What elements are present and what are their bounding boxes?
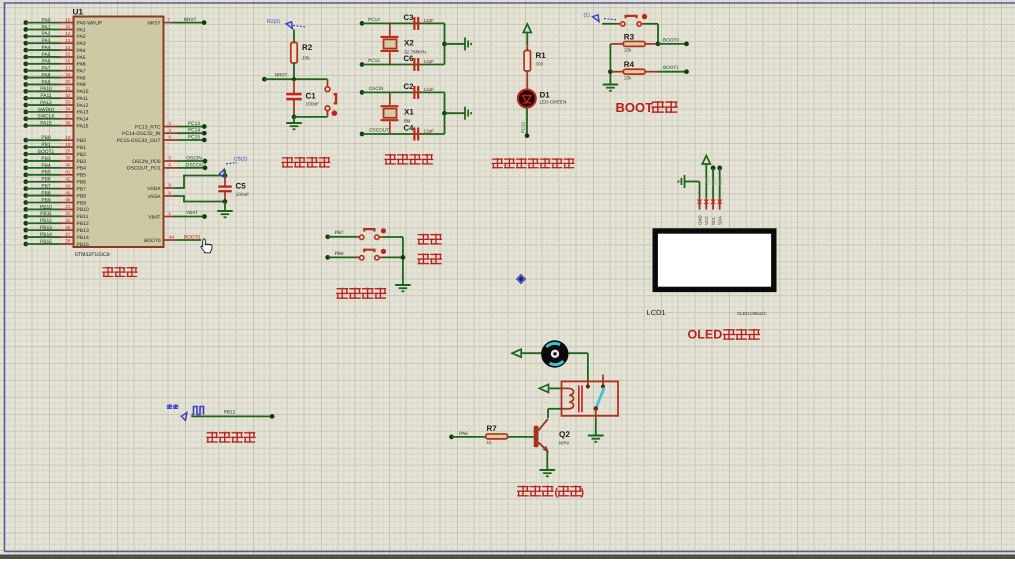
- wire D1 to PC13: [526, 108, 528, 136]
- pin PA10 (pin 31): [23, 89, 28, 94]
- pin NRST (7): [164, 22, 173, 24]
- svg-text:VCC: VCC: [704, 216, 709, 225]
- wire OLED GND: [685, 181, 700, 183]
- LCD1 pin 1: [699, 198, 701, 210]
- bottom bar: [0, 555, 1015, 560]
- wire to ground: [445, 112, 465, 114]
- svg-text:(: (: [555, 486, 559, 498]
- pin PB13 (pin 26): [23, 228, 28, 233]
- svg-text:30: 30: [65, 79, 71, 84]
- pin PB4 (pin 40): [23, 166, 28, 171]
- wire SDA stub: [717, 166, 722, 171]
- svg-text:PA4: PA4: [77, 48, 86, 54]
- svg-text:R4: R4: [624, 60, 635, 69]
- svg-text:40: 40: [65, 163, 71, 168]
- svg-text:PA0: PA0: [42, 18, 51, 24]
- LCD1 pin 3: [712, 198, 714, 210]
- ground relay: [588, 435, 604, 437]
- node PB7: [325, 234, 330, 239]
- ground boot: [603, 84, 619, 86]
- wire C2 row: [362, 91, 445, 93]
- pin PB2 (pin 20): [23, 152, 28, 157]
- svg-text:8M: 8M: [404, 119, 411, 124]
- svg-text:100nF: 100nF: [236, 192, 250, 198]
- power arrow motor: [512, 349, 521, 357]
- svg-text:PB7: PB7: [41, 184, 51, 190]
- wire right rail: [444, 23, 446, 64]
- pin BOOT0 (44): [164, 239, 178, 241]
- svg-text:VBAT: VBAT: [186, 210, 198, 215]
- node left rail R4: [608, 69, 613, 74]
- svg-text:PA3: PA3: [77, 41, 86, 47]
- svg-text:SDA: SDA: [718, 216, 723, 225]
- svg-text:U1: U1: [73, 8, 84, 17]
- wire R7 to Q2: [508, 436, 534, 438]
- capacitor C3: [413, 17, 415, 30]
- svg-text:PA12: PA12: [77, 103, 89, 109]
- capacitor C4: [413, 128, 415, 141]
- svg-text:PA5: PA5: [77, 55, 86, 61]
- wire C5 stub: [224, 170, 226, 176]
- pin PC13_RTC (2): [164, 126, 178, 128]
- svg-text:BOOT1: BOOT1: [38, 149, 55, 155]
- svg-text:PC13: PC13: [521, 121, 526, 133]
- svg-text:VDDA: VDDA: [147, 186, 161, 192]
- wire to ground: [445, 43, 465, 45]
- pin PC15-OSC32_OUT (4): [164, 139, 178, 141]
- pin PA14 (pin 37): [23, 116, 28, 121]
- svg-text:PB15: PB15: [40, 239, 52, 245]
- node NRST left: [262, 77, 267, 82]
- pin VSSA (8): [164, 195, 175, 197]
- capacitor C2: [413, 86, 415, 99]
- svg-text:BOOT0: BOOT0: [184, 234, 201, 240]
- svg-text:12pF: 12pF: [424, 18, 435, 23]
- node C2 left: [360, 90, 365, 95]
- svg-text:SWDIO: SWDIO: [38, 107, 55, 113]
- svg-text:VDD: VDD: [705, 177, 710, 186]
- svg-text:PA15: PA15: [77, 123, 89, 129]
- svg-text:21: 21: [65, 204, 71, 209]
- button RESET top lead: [327, 79, 329, 86]
- node PC13 end: [525, 133, 530, 138]
- svg-text:12pF: 12pF: [424, 129, 435, 134]
- svg-text:R3: R3: [624, 32, 635, 41]
- node rail mid: [442, 111, 447, 116]
- pin PA13 (pin 34): [23, 110, 28, 115]
- pin PC14-OSC32_IN (3): [164, 132, 178, 134]
- wire boot button right: [641, 23, 644, 25]
- svg-text:PA6: PA6: [459, 431, 468, 436]
- svg-text:PA7: PA7: [77, 68, 86, 74]
- caption 继电器(水泵): [518, 486, 529, 496]
- svg-text:PA1: PA1: [77, 27, 86, 33]
- svg-text:R2(2): R2(2): [267, 19, 280, 25]
- svg-text:PC13: PC13: [188, 121, 201, 127]
- svg-text:PA3: PA3: [42, 38, 51, 44]
- svg-text:PB10: PB10: [40, 204, 52, 210]
- caption 清零: [418, 254, 429, 264]
- button BOOT: [621, 22, 625, 26]
- ground OLED: [684, 175, 686, 188]
- svg-text:PB13: PB13: [40, 225, 52, 231]
- svg-text:PC14: PC14: [368, 17, 380, 22]
- svg-text:300: 300: [536, 62, 544, 67]
- svg-text:C4: C4: [404, 124, 415, 133]
- svg-text:PA6: PA6: [42, 59, 51, 65]
- svg-text:PB0: PB0: [41, 135, 51, 141]
- pin PA11 (pin 32): [23, 96, 28, 101]
- svg-text:15: 15: [65, 52, 71, 57]
- node C5 top: [223, 173, 228, 178]
- svg-text:19: 19: [65, 142, 71, 147]
- svg-text:10k: 10k: [624, 75, 632, 81]
- caption 晶振电路: [385, 155, 396, 164]
- resistor R7: [486, 434, 508, 439]
- svg-text:OSCOUT_PD1: OSCOUT_PD1: [127, 166, 161, 172]
- wire right rail: [444, 92, 446, 134]
- resistor R2: [291, 43, 297, 64]
- svg-text:C5(2): C5(2): [234, 157, 247, 163]
- svg-text:OLED128642C: OLED128642C: [737, 311, 767, 316]
- svg-text:PB11: PB11: [77, 214, 89, 220]
- pin PA8 (pin 29): [23, 75, 28, 80]
- svg-text:PB6: PB6: [77, 180, 87, 186]
- node C4 left: [360, 132, 365, 137]
- pin PA3 (pin 13): [23, 41, 28, 46]
- svg-text:OSCOUT: OSCOUT: [369, 127, 389, 132]
- node R3 right: [656, 42, 661, 47]
- svg-text:NRST: NRST: [275, 73, 288, 78]
- pin OSCOUT_PD1 (6): [164, 167, 178, 169]
- ground keys: [395, 284, 411, 286]
- svg-text:44: 44: [169, 235, 174, 240]
- power arrow coil: [540, 384, 549, 392]
- svg-text:PB12: PB12: [77, 221, 89, 227]
- wire motor left: [521, 352, 541, 354]
- svg-text:20: 20: [65, 149, 71, 154]
- svg-text:R1: R1: [536, 51, 547, 60]
- display LCD1: [655, 231, 774, 289]
- svg-text:PC15: PC15: [188, 134, 201, 140]
- svg-text:PA13: PA13: [77, 110, 89, 116]
- svg-text:27: 27: [65, 232, 71, 237]
- svg-text:NRST: NRST: [184, 17, 197, 22]
- svg-text:PA11: PA11: [77, 96, 89, 102]
- svg-text:PB8: PB8: [77, 193, 87, 199]
- svg-text:6: 6: [168, 163, 171, 168]
- svg-text:PB8: PB8: [41, 190, 51, 196]
- pin PB12 (pin 25): [23, 221, 28, 226]
- svg-text:D1: D1: [540, 91, 551, 100]
- svg-text:39: 39: [65, 156, 71, 161]
- LCD1 pin 2: [705, 198, 707, 210]
- svg-text:PB3: PB3: [41, 156, 51, 162]
- pin PB10 (pin 21): [23, 207, 28, 212]
- svg-text:10: 10: [65, 17, 71, 22]
- svg-text:BOOT0: BOOT0: [663, 37, 679, 42]
- pin PB9 (pin 46): [23, 200, 28, 205]
- svg-text:GND: GND: [697, 215, 702, 225]
- svg-text:PB9: PB9: [77, 200, 87, 206]
- wire KEY2 right: [379, 256, 382, 258]
- ground rotated: [464, 107, 466, 120]
- svg-text:STM32F103C8: STM32F103C8: [75, 252, 110, 258]
- svg-text:PB7: PB7: [77, 186, 87, 192]
- wire PB7: [328, 236, 357, 238]
- wire keys rail: [402, 237, 404, 285]
- button KEY1: [360, 235, 364, 239]
- svg-text:2: 2: [168, 121, 171, 126]
- svg-text:PB7: PB7: [335, 230, 344, 235]
- svg-text:PB11: PB11: [40, 211, 52, 217]
- svg-text:SCL: SCL: [711, 216, 716, 225]
- svg-text:PB8: PB8: [335, 251, 344, 256]
- origin marker: [517, 275, 526, 284]
- svg-text:C5: C5: [236, 182, 247, 191]
- svg-text:32: 32: [65, 93, 71, 98]
- svg-text:28: 28: [65, 239, 71, 244]
- pin PB15 (pin 28): [23, 242, 28, 247]
- svg-text:PB12: PB12: [224, 410, 236, 415]
- svg-text:PB6: PB6: [41, 177, 51, 183]
- capacitor C5: [218, 185, 232, 187]
- LED D1: [518, 90, 536, 108]
- svg-text:PA10: PA10: [77, 89, 89, 95]
- svg-text:OSCIN: OSCIN: [186, 155, 202, 161]
- svg-text:17: 17: [65, 65, 71, 70]
- wire VDDA to C5: [174, 187, 184, 189]
- svg-text:32.768KHz: 32.768KHz: [404, 49, 427, 54]
- svg-text:PB15: PB15: [77, 242, 89, 248]
- svg-text:10k: 10k: [302, 56, 310, 62]
- wire NRST rail: [264, 78, 327, 80]
- svg-text:4: 4: [168, 135, 171, 140]
- node rail mid: [442, 42, 447, 47]
- caption 独立按键: [337, 288, 348, 298]
- svg-text:PB1: PB1: [41, 142, 51, 148]
- svg-text:46: 46: [65, 197, 71, 202]
- svg-text:45: 45: [65, 190, 71, 195]
- svg-text:PA5: PA5: [42, 52, 51, 58]
- svg-text:38: 38: [65, 120, 71, 125]
- pin PB5 (pin 41): [23, 172, 28, 177]
- svg-text:PB4: PB4: [41, 163, 51, 169]
- capacitor C6: [413, 58, 415, 71]
- svg-text:PB13: PB13: [77, 228, 89, 234]
- pin PA9 (pin 30): [23, 82, 28, 87]
- svg-text:PB12: PB12: [40, 218, 52, 224]
- wire bottom rail: [294, 116, 328, 118]
- wire VSSA to C5: [174, 195, 184, 197]
- pin PB3 (pin 39): [23, 159, 28, 164]
- node C3 left: [360, 21, 365, 26]
- wire C3 row: [362, 22, 445, 24]
- op-chip U1 body: [74, 17, 164, 248]
- svg-text:PB9: PB9: [41, 197, 51, 203]
- pin PA15 (pin 38): [23, 123, 28, 128]
- svg-text:1k: 1k: [487, 440, 493, 445]
- wire BOOT0: [658, 43, 687, 45]
- svg-text:PA2: PA2: [77, 34, 86, 40]
- svg-text:SWCLK: SWCLK: [37, 114, 55, 120]
- pin PA1 (pin 11): [23, 27, 28, 32]
- svg-text:18: 18: [65, 135, 71, 140]
- svg-text:29: 29: [65, 72, 71, 77]
- svg-text:34: 34: [65, 107, 71, 112]
- resistor R3: [623, 41, 645, 46]
- svg-text:12pF: 12pF: [424, 59, 435, 64]
- node PA6: [449, 435, 454, 440]
- svg-text:BOOT0: BOOT0: [144, 238, 161, 244]
- resistor R1: [524, 51, 530, 72]
- ground Q2: [540, 469, 556, 471]
- relay switch blade: [596, 388, 605, 409]
- relay RL1 body: [562, 381, 619, 415]
- svg-text:11: 11: [66, 24, 71, 29]
- svg-text:VSSA: VSSA: [148, 194, 162, 200]
- ground reset: [286, 122, 302, 124]
- svg-text:PB1: PB1: [77, 145, 87, 151]
- svg-text:R7: R7: [487, 424, 498, 433]
- motor: [541, 340, 568, 367]
- svg-text:PC14: PC14: [188, 128, 201, 134]
- wire coil bottom: [548, 408, 562, 410]
- wire boot button left: [602, 23, 618, 25]
- svg-text:(1): (1): [584, 12, 591, 18]
- wire left rail: [609, 44, 611, 84]
- svg-text:PB0: PB0: [77, 138, 87, 144]
- node PB12 end: [270, 414, 275, 419]
- svg-text:42: 42: [65, 176, 71, 181]
- wire coil left: [549, 387, 562, 389]
- svg-text:PB3: PB3: [77, 159, 87, 165]
- node C6 left: [360, 62, 365, 67]
- svg-text:5: 5: [168, 156, 171, 161]
- svg-text:PA9: PA9: [77, 82, 86, 88]
- node PB8: [325, 255, 330, 260]
- pin PB11 (pin 22): [23, 214, 28, 219]
- wire KEY1 right: [379, 236, 382, 238]
- svg-text:PB10: PB10: [77, 207, 89, 213]
- svg-text:33: 33: [65, 100, 71, 105]
- crystal X2: [381, 36, 399, 38]
- transistor Q2: [534, 426, 539, 447]
- svg-text:C1: C1: [306, 92, 317, 101]
- caption 程序运行指示灯: [492, 159, 502, 168]
- svg-text:SDA: SDA: [718, 177, 723, 186]
- svg-text:13: 13: [65, 38, 71, 43]
- svg-text:C3: C3: [404, 13, 415, 22]
- ground rotated: [464, 37, 466, 50]
- pin PB14 (pin 27): [23, 235, 28, 240]
- wire SCL stub: [711, 166, 716, 171]
- svg-text:PA7: PA7: [42, 66, 51, 72]
- svg-text:12pF: 12pF: [424, 87, 435, 92]
- pin PB7 (pin 43): [23, 186, 28, 191]
- resistor R3 leads: [611, 43, 624, 45]
- resistor R1 leads: [526, 45, 528, 50]
- svg-text:PA8: PA8: [42, 72, 51, 78]
- crystal X1 leads: [389, 92, 391, 105]
- svg-text:25: 25: [65, 218, 71, 223]
- caption 水流检测: [207, 432, 218, 442]
- svg-text:PB14: PB14: [77, 235, 89, 241]
- svg-text:LCD1: LCD1: [647, 308, 666, 317]
- ground C5: [217, 210, 233, 212]
- wire PB12: [191, 415, 272, 417]
- svg-text:10k: 10k: [624, 48, 632, 54]
- wire C4 row: [362, 133, 445, 135]
- pin VBAT (1): [164, 216, 175, 218]
- node keys rail: [401, 255, 406, 260]
- svg-text:PC15: PC15: [368, 58, 380, 63]
- svg-text:PB4: PB4: [77, 166, 87, 172]
- svg-text:BOOT1: BOOT1: [663, 65, 679, 70]
- svg-text:PC14-OSC32_IN: PC14-OSC32_IN: [122, 131, 161, 137]
- svg-text:NPN: NPN: [559, 441, 569, 446]
- svg-text:14: 14: [65, 45, 71, 50]
- svg-text:PA10: PA10: [40, 86, 52, 92]
- svg-text:PA14: PA14: [77, 117, 89, 123]
- pin PA2 (pin 12): [23, 34, 28, 39]
- caption 开关: [418, 234, 429, 244]
- button RESET: [325, 87, 330, 92]
- pin PA0 (pin 10): [23, 20, 28, 25]
- pin PA12 (pin 33): [23, 103, 28, 108]
- waveform symbol: [192, 407, 204, 415]
- svg-text:PB14: PB14: [40, 232, 52, 238]
- svg-text:PA0-WKUP: PA0-WKUP: [77, 20, 103, 26]
- svg-text:100nF: 100nF: [306, 102, 320, 108]
- svg-text:PA2: PA2: [42, 31, 51, 37]
- svg-text:NRST: NRST: [147, 20, 160, 26]
- svg-text:PA1: PA1: [42, 24, 51, 30]
- caption 主芯片: [103, 267, 113, 276]
- svg-text:PB5: PB5: [77, 173, 87, 179]
- svg-text:22: 22: [65, 211, 71, 216]
- svg-text:Q2: Q2: [559, 430, 570, 439]
- relay common: [595, 409, 597, 419]
- wire R2 bottom: [293, 63, 295, 79]
- svg-text:26: 26: [65, 225, 71, 230]
- svg-text:X1: X1: [404, 108, 414, 117]
- pin PA6 (pin 16): [23, 61, 28, 66]
- label 水流 blue: [167, 405, 172, 409]
- svg-text:PA9: PA9: [42, 79, 51, 85]
- relay pin NO: [587, 381, 589, 386]
- svg-text:41: 41: [65, 170, 71, 175]
- wire C6 row: [362, 64, 445, 66]
- svg-text:31: 31: [65, 86, 71, 91]
- svg-text:PB2: PB2: [77, 152, 87, 158]
- wire emitter to ground: [546, 451, 548, 470]
- svg-text:OSCIN: OSCIN: [369, 86, 384, 91]
- svg-text:C2: C2: [404, 82, 415, 91]
- node R2/C1: [292, 77, 296, 81]
- capacitor C1: [286, 93, 301, 96]
- svg-text:PA12: PA12: [40, 100, 52, 106]
- pin VDDA (9): [164, 187, 175, 189]
- svg-text:PA4: PA4: [42, 45, 51, 51]
- svg-text:3: 3: [168, 128, 171, 133]
- pin PA7 (pin 17): [23, 68, 28, 73]
- button RESET bottom lead: [327, 111, 329, 117]
- svg-text:PA11: PA11: [40, 93, 52, 99]
- relay pin NC: [602, 375, 604, 387]
- svg-text:OLED: OLED: [688, 328, 723, 342]
- pin PB8 (pin 45): [23, 193, 28, 198]
